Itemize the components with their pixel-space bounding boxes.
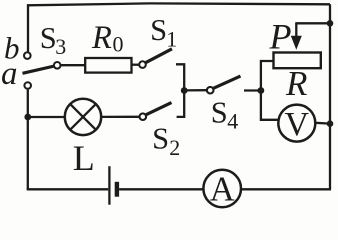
svg-text:3: 3 bbox=[55, 34, 66, 59]
wire junction up to rheostat R bbox=[261, 61, 274, 91]
svg-text:A: A bbox=[210, 171, 235, 209]
node junction slider tap on right rail bbox=[327, 20, 334, 27]
switch S2 bbox=[140, 103, 181, 160]
node junction on bar bbox=[181, 87, 188, 94]
wire S4 fixed contact to junction bbox=[244, 89, 261, 91]
wire bar to S4 bbox=[184, 89, 206, 92]
wire bottom left to battery bbox=[28, 188, 109, 189]
ammeter A bbox=[203, 170, 241, 209]
svg-text:4: 4 bbox=[227, 108, 238, 133]
switch S1 bbox=[139, 13, 177, 68]
wire voltmeter to right rail bbox=[315, 122, 330, 125]
wire left rail a to bottom bbox=[27, 90, 29, 189]
node junction lamp tap bbox=[24, 114, 31, 121]
node junction right of S4 bbox=[258, 87, 265, 94]
slider P bbox=[269, 17, 331, 57]
svg-text:R: R bbox=[91, 20, 112, 56]
wire left drop to terminal b bbox=[27, 4, 29, 52]
svg-text:L: L bbox=[73, 138, 95, 178]
svg-text:S: S bbox=[152, 122, 169, 156]
node a bbox=[1, 56, 31, 92]
svg-text:a: a bbox=[1, 56, 18, 92]
svg-text:R: R bbox=[285, 64, 307, 103]
svg-text:2: 2 bbox=[169, 135, 180, 160]
svg-text:V: V bbox=[285, 106, 310, 143]
wire junction to lamp bbox=[28, 116, 65, 118]
wire S3 to R0 bbox=[61, 64, 85, 66]
rheostat R bbox=[274, 53, 321, 104]
svg-text:1: 1 bbox=[166, 27, 177, 52]
switch S4 bbox=[207, 76, 241, 133]
battery bbox=[109, 166, 119, 205]
resistor R0 bbox=[85, 20, 131, 73]
lamp L bbox=[65, 99, 101, 178]
node b bbox=[4, 31, 31, 66]
node junction voltmeter tap bbox=[327, 120, 334, 127]
wire junction down to voltmeter bbox=[261, 91, 278, 120]
svg-text:S: S bbox=[40, 21, 57, 55]
svg-text:S: S bbox=[211, 95, 228, 129]
wire R0 to S1 bbox=[132, 64, 140, 66]
wire ammeter to right rail bbox=[241, 188, 331, 190]
wire right rail bbox=[329, 4, 331, 189]
svg-text:0: 0 bbox=[113, 32, 124, 57]
svg-text:P: P bbox=[269, 17, 292, 57]
wire battery to ammeter bbox=[119, 188, 203, 190]
wire lamp to S2 bbox=[101, 116, 139, 118]
wire contact bar between S1 and S2 rows bbox=[176, 64, 184, 117]
switch S3 bbox=[23, 21, 67, 73]
svg-text:S: S bbox=[150, 13, 167, 47]
wire top rail bbox=[27, 3, 330, 5]
voltmeter V bbox=[278, 105, 315, 143]
